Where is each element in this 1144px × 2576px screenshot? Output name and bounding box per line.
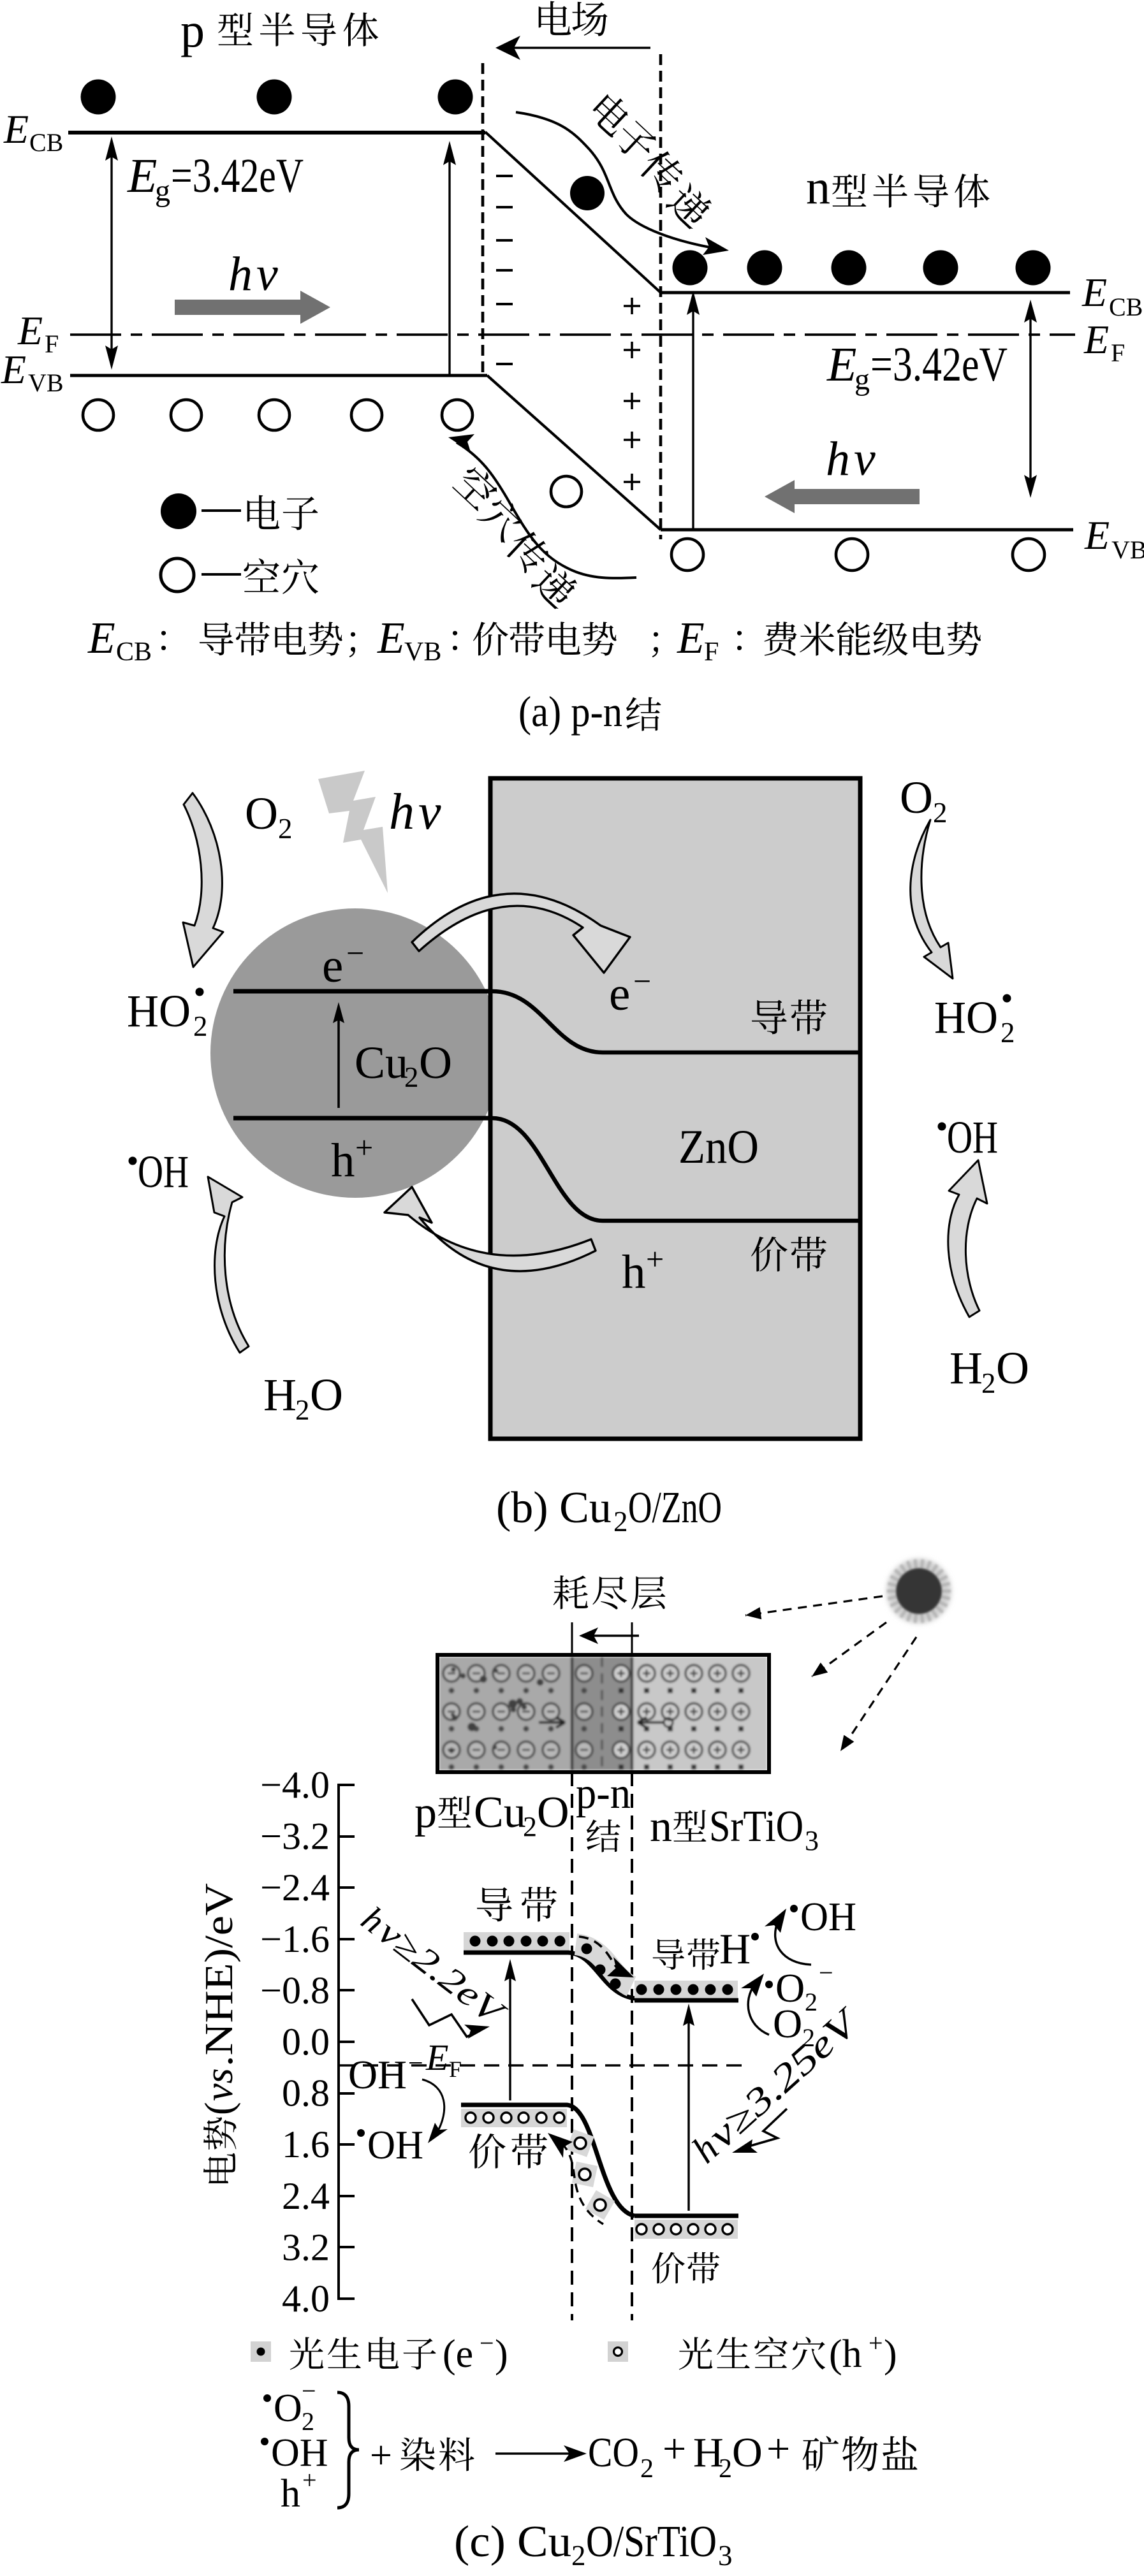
caption (c) Cu2O/SrTiO3 xyxy=(454,2517,733,2572)
SrTiO3 CB electron dots xyxy=(636,1984,733,1995)
svg-text:h: h xyxy=(622,1246,646,1299)
hole circle n1 xyxy=(671,539,703,571)
label E_CB left xyxy=(3,106,63,157)
svg-text:E: E xyxy=(1,347,26,392)
svg-text:2: 2 xyxy=(981,1367,996,1399)
gray photon arrow n-side xyxy=(765,480,920,513)
legend electron dot xyxy=(161,493,196,529)
svg-text:SrTiO: SrTiO xyxy=(709,1802,803,1851)
label hv (b) xyxy=(389,784,441,840)
depletion boundary line above right xyxy=(631,1622,633,1655)
ribbon arrow electron transfer (b) xyxy=(412,894,630,973)
hole circle p5 xyxy=(442,400,473,430)
hole circle p4 xyxy=(351,400,382,430)
svg-text:−2.4: −2.4 xyxy=(260,1867,330,1909)
Cu2O VB hole circles xyxy=(466,2113,564,2123)
junction dashed vertical right (c) xyxy=(631,1772,633,2320)
label Eg=3.42eV n-side xyxy=(826,338,1008,397)
lightning bolt hv xyxy=(318,771,388,893)
svg-text:O: O xyxy=(537,1788,569,1837)
label ZnO xyxy=(678,1121,759,1174)
electron transfer gray band (c) xyxy=(576,1944,631,1986)
E_VB valence band line p-side xyxy=(70,374,487,377)
svg-text:OH: OH xyxy=(800,1894,856,1939)
electric field arrow xyxy=(495,36,650,60)
svg-text:VB: VB xyxy=(28,368,64,397)
svg-text:−: − xyxy=(408,2049,423,2078)
label H2O left xyxy=(263,1369,343,1426)
svg-text:O: O xyxy=(996,1343,1029,1394)
minus charge signs column xyxy=(496,176,513,364)
electron dot n5 xyxy=(1016,251,1051,286)
svg-text:1.6: 1.6 xyxy=(282,2123,330,2165)
svg-text:2: 2 xyxy=(1001,1017,1015,1049)
label p-n junction column xyxy=(576,1769,631,1852)
label 导带 SrTiO3 xyxy=(653,1939,720,1970)
svg-text:e: e xyxy=(322,940,343,993)
svg-text:): ) xyxy=(884,2332,897,2376)
label h+ in sphere xyxy=(331,1130,373,1187)
svg-text:F: F xyxy=(45,330,59,358)
hook arrow H to OH (c) xyxy=(765,1909,811,1965)
electron transfer curve xyxy=(516,112,729,255)
depletion layer arrow xyxy=(579,1627,639,1644)
label O2 (c) xyxy=(773,2001,815,2052)
caption (a) p-n junction xyxy=(518,687,661,736)
label OH- (c) xyxy=(348,2049,423,2097)
svg-text:−3.2: −3.2 xyxy=(260,1816,330,1858)
svg-text:2: 2 xyxy=(523,1811,537,1842)
svg-text:HO: HO xyxy=(127,986,191,1037)
svg-text:2: 2 xyxy=(404,1061,419,1093)
svg-text:ν: ν xyxy=(256,247,278,301)
ribbon arrow H2O right xyxy=(948,1160,987,1317)
svg-text:g: g xyxy=(854,363,870,397)
svg-text:p: p xyxy=(414,1788,437,1837)
junction dashed vertical left (c) xyxy=(571,1772,573,2320)
legend hole circle xyxy=(161,558,194,592)
svg-text:−: − xyxy=(633,963,651,999)
svg-text:2: 2 xyxy=(193,1010,208,1042)
axis value labels xyxy=(260,1764,330,2320)
SrTiO3 VB hole circles xyxy=(636,2224,733,2234)
electron dot n2 xyxy=(747,251,782,286)
svg-text:+: + xyxy=(302,2466,317,2494)
Cu2O CB level line and S-curve xyxy=(464,1953,636,1998)
svg-text:E: E xyxy=(3,106,29,152)
Cu2O h+ level line xyxy=(233,1116,492,1121)
legend photo-hole (c) xyxy=(608,2329,897,2376)
svg-text:2: 2 xyxy=(640,2454,654,2484)
svg-text:0.0: 0.0 xyxy=(282,2021,330,2063)
conduction band slope xyxy=(485,132,661,293)
svg-text:ν≥2.2eV: ν≥2.2eV xyxy=(370,1912,513,2034)
axis title 电势(vs.NHE)/eV xyxy=(198,1883,241,2183)
svg-text:−: − xyxy=(346,935,364,971)
svg-text:−0.8: −0.8 xyxy=(260,1969,330,2011)
label 价带 SrTiO3 xyxy=(652,2252,720,2283)
svg-text:+: + xyxy=(646,1241,664,1277)
hole transfer circles (c) xyxy=(575,2137,606,2211)
svg-text:g: g xyxy=(155,174,170,208)
title p-type semiconductor xyxy=(180,4,378,57)
SrTiO3 VB level line xyxy=(634,2214,738,2218)
caption definitions line xyxy=(87,614,981,667)
svg-text:VB: VB xyxy=(404,637,441,667)
svg-text:ν: ν xyxy=(418,784,441,840)
svg-text:E: E xyxy=(1084,513,1110,558)
hook arrow O2 (c) xyxy=(741,1974,769,2035)
svg-text:2.4: 2.4 xyxy=(282,2175,330,2217)
svg-text:O/ZnO: O/ZnO xyxy=(628,1483,722,1532)
photoexcitation arrow SrTiO3 (c) xyxy=(683,2004,694,2211)
depletion boundary line above left xyxy=(571,1622,573,1655)
label 电子传递 rotated xyxy=(587,90,715,231)
svg-text:(c) Cu: (c) Cu xyxy=(454,2517,571,2566)
svg-text:(e: (e xyxy=(443,2332,473,2376)
svg-text:h: h xyxy=(331,1134,355,1187)
svg-text:3.2: 3.2 xyxy=(282,2226,330,2268)
hole circle n3 xyxy=(1013,539,1045,571)
label 价带 Cu2O xyxy=(469,2134,547,2169)
SrTiO3 VB gray band xyxy=(634,2220,738,2239)
svg-text:OH: OH xyxy=(138,1146,189,1197)
svg-text:(: ( xyxy=(198,2102,241,2115)
svg-text:−4.0: −4.0 xyxy=(260,1764,330,1806)
label .OH (c) left xyxy=(357,2122,423,2167)
gray photon arrow p-side xyxy=(175,291,330,324)
svg-text:2: 2 xyxy=(613,1506,628,1538)
svg-text:.NHE)/eV: .NHE)/eV xyxy=(198,1883,241,2067)
electric field label 电场 xyxy=(539,1,608,36)
crystal lattice schematic xyxy=(439,1657,767,1770)
svg-text:HO: HO xyxy=(934,992,998,1043)
svg-text:2: 2 xyxy=(295,1394,310,1426)
valence band slope xyxy=(487,375,661,530)
hole circle p1 xyxy=(83,400,114,430)
junction dashed line left xyxy=(481,63,485,375)
svg-text:OH: OH xyxy=(271,2431,328,2475)
label HO2 radical left xyxy=(127,986,208,1042)
svg-text:−: − xyxy=(480,2329,494,2357)
svg-text:H: H xyxy=(263,1369,297,1420)
label 导带 Cu2O CB xyxy=(477,1887,557,1922)
Cu2O CB gray band xyxy=(464,1932,569,1951)
svg-text:Cu: Cu xyxy=(355,1037,408,1088)
svg-text:ZnO: ZnO xyxy=(678,1121,759,1174)
sun ray 3 xyxy=(840,1637,916,1751)
svg-text:p: p xyxy=(180,4,205,57)
electron dot p2 xyxy=(257,80,292,115)
svg-text:): ) xyxy=(495,2332,508,2376)
label HO2 radical right xyxy=(934,992,1015,1049)
zigzag arrow 2.2eV xyxy=(412,1999,490,2039)
hole transfer dashed curve (c) xyxy=(548,2133,603,2224)
svg-text:(h: (h xyxy=(829,2332,862,2376)
electron dot n1 xyxy=(673,251,708,286)
Cu2O sphere xyxy=(210,908,500,1198)
svg-text:(b) Cu: (b) Cu xyxy=(496,1483,612,1532)
svg-text:E: E xyxy=(425,2037,448,2078)
svg-text:CB: CB xyxy=(1109,293,1143,321)
legend electron text xyxy=(202,495,318,530)
label 耗尽层 depletion layer xyxy=(554,1575,666,1609)
svg-text:h: h xyxy=(228,247,253,301)
svg-text:2: 2 xyxy=(719,2454,732,2484)
svg-text:3: 3 xyxy=(718,2540,733,2572)
svg-text:E: E xyxy=(677,614,705,663)
electron transfer dots (c) xyxy=(582,1944,621,1990)
svg-text:vs: vs xyxy=(198,2068,241,2101)
reactants .OH xyxy=(261,2431,328,2475)
Fermi level dashed line (c) xyxy=(339,2064,745,2066)
svg-text:−1.6: −1.6 xyxy=(260,1918,330,1960)
photoexcitation arrow n-side xyxy=(687,291,700,530)
svg-text:F: F xyxy=(704,637,719,667)
reaction products xyxy=(588,2426,918,2484)
svg-text:e: e xyxy=(609,968,630,1021)
reactants h+ xyxy=(281,2466,317,2515)
svg-text:0.8: 0.8 xyxy=(282,2072,330,2114)
svg-text:O: O xyxy=(419,1037,452,1088)
reaction arrow xyxy=(495,2445,587,2462)
electron dot p1 xyxy=(81,80,116,115)
Cu2O VB level line and S-curve xyxy=(461,2105,634,2216)
hole circle on slope xyxy=(551,476,582,507)
svg-text:(a) p-n: (a) p-n xyxy=(518,687,622,736)
svg-text:n: n xyxy=(806,161,830,214)
label E_F right xyxy=(1083,317,1125,367)
ribbon arrow O2 to HO2 left xyxy=(183,793,223,967)
svg-text:OH: OH xyxy=(348,2052,407,2097)
svg-text:O: O xyxy=(732,2429,763,2476)
svg-text:n: n xyxy=(650,1802,672,1851)
svg-text:h: h xyxy=(826,432,850,486)
label hv>=3.25eV rotated xyxy=(684,1999,869,2171)
brace xyxy=(337,2392,359,2508)
label hv n-side xyxy=(826,432,876,486)
svg-text:O: O xyxy=(245,788,278,839)
label .O2- (c) xyxy=(765,1958,833,2016)
Cu2O e- level line xyxy=(233,989,492,994)
svg-text:=3.42eV: =3.42eV xyxy=(171,149,304,203)
bandgap double arrow p-side xyxy=(105,136,118,370)
ZnO valence band curve xyxy=(492,1118,858,1221)
reaction + dye xyxy=(370,2434,474,2477)
label CB in ZnO 导带 xyxy=(752,1000,826,1035)
label O2 left (b) xyxy=(245,788,293,845)
sun ray 2 xyxy=(812,1622,886,1677)
svg-text:H: H xyxy=(719,1925,751,1973)
E_CB conduction band line n-side xyxy=(661,291,1070,295)
svg-text:OH: OH xyxy=(367,2122,423,2167)
ZnO conduction band curve xyxy=(492,991,858,1052)
svg-text:4.0: 4.0 xyxy=(282,2278,330,2320)
zigzag arrow 3.25eV xyxy=(732,2109,787,2153)
legend hole text xyxy=(202,558,318,594)
svg-text:2: 2 xyxy=(933,797,948,829)
svg-text:CO: CO xyxy=(588,2429,639,2476)
svg-text:h: h xyxy=(281,2472,300,2515)
svg-text:O: O xyxy=(310,1369,343,1420)
label H radical (c) xyxy=(719,1925,759,1973)
E_CB conduction band line p-side xyxy=(68,131,485,135)
potential axis line with ticks xyxy=(339,1784,355,2300)
label VB in ZnO 价带 xyxy=(751,1237,826,1272)
svg-text:−: − xyxy=(819,1958,833,1987)
label E_F left xyxy=(17,308,59,358)
svg-text:F: F xyxy=(1111,338,1125,367)
photoexcitation arrow p-side xyxy=(443,141,456,375)
svg-text:E: E xyxy=(377,614,405,663)
hole transfer curve xyxy=(448,434,636,578)
svg-text:F: F xyxy=(449,2056,462,2082)
svg-text:E: E xyxy=(127,149,157,203)
Cu2O CB electron dots xyxy=(470,1936,566,1947)
svg-text:−: − xyxy=(302,2376,316,2405)
ribbon arrow O2 right xyxy=(911,820,953,979)
bandgap double arrow n-side xyxy=(1024,300,1037,498)
svg-text:p-n: p-n xyxy=(576,1769,631,1818)
label n-type SrTiO3 xyxy=(650,1802,819,1856)
svg-text:+: + xyxy=(355,1130,373,1165)
ribbon arrow hole transfer (b) xyxy=(385,1187,596,1271)
svg-text:2: 2 xyxy=(278,813,293,845)
up arrow in sphere xyxy=(333,1002,344,1108)
OH-/OH arrow (c) xyxy=(422,2079,448,2143)
svg-text:CB: CB xyxy=(116,637,152,667)
sun ray 1 xyxy=(745,1596,883,1619)
label O2 right (b) xyxy=(900,772,948,829)
label E_CB right xyxy=(1082,270,1143,321)
title n-type semiconductor xyxy=(806,161,990,214)
svg-text:+: + xyxy=(370,2434,402,2477)
legend photo-electron (c) xyxy=(251,2329,508,2376)
svg-text:+: + xyxy=(766,2426,790,2472)
svg-text:O: O xyxy=(900,772,933,823)
svg-text:E: E xyxy=(1083,317,1109,362)
svg-text:2: 2 xyxy=(805,1988,818,2016)
svg-text:H: H xyxy=(950,1343,983,1394)
label hv>=2.2eV rotated xyxy=(354,1899,513,2034)
E_VB valence band line n-side xyxy=(661,528,1073,532)
label Eg=3.42eV p-side xyxy=(127,149,304,208)
photoexcitation arrow Cu2O (c) xyxy=(504,1959,516,2100)
electron dot n3 xyxy=(832,251,867,286)
svg-text:=3.42eV: =3.42eV xyxy=(870,338,1008,391)
svg-text:E: E xyxy=(87,614,115,663)
junction dashed line right xyxy=(659,54,663,539)
reactants .O2- xyxy=(263,2376,316,2436)
hole transfer gray band (c) xyxy=(566,2129,615,2220)
svg-text:E: E xyxy=(1082,270,1107,315)
Fermi level dash-dot line xyxy=(70,333,1075,336)
electron dot on slope xyxy=(570,176,605,210)
label 空穴传递 rotated xyxy=(451,462,580,611)
svg-text:ν: ν xyxy=(854,432,876,486)
electron transfer dashed curve (c) xyxy=(579,1937,634,1977)
hole circle p3 xyxy=(259,400,290,430)
svg-text:+: + xyxy=(663,2426,686,2472)
label E_VB left xyxy=(1,347,64,397)
SrTiO3 CB level line xyxy=(634,1998,738,2003)
svg-text:3: 3 xyxy=(805,1825,819,1856)
plus charge signs column xyxy=(624,298,640,490)
hole circle n2 xyxy=(836,539,868,571)
label h+ in ZnO xyxy=(622,1241,664,1299)
label Cu2O in sphere xyxy=(355,1037,452,1093)
ZnO rectangle xyxy=(490,778,860,1439)
Cu2O VB gray band xyxy=(461,2109,567,2127)
label hv p-side xyxy=(228,247,278,301)
svg-text:2: 2 xyxy=(571,2540,586,2572)
label E_F (c) xyxy=(425,2037,462,2082)
svg-text:+: + xyxy=(869,2329,883,2357)
caption (b) Cu2O/ZnO xyxy=(496,1483,722,1538)
svg-text:O: O xyxy=(274,2387,302,2430)
label e- in ZnO xyxy=(609,963,651,1021)
label OH radical right xyxy=(938,1112,999,1163)
svg-text:VB: VB xyxy=(1111,535,1144,564)
label .OH right (c) xyxy=(790,1894,856,1939)
SrTiO3 CB gray band xyxy=(634,1981,738,1998)
electron dot p3 xyxy=(438,80,473,115)
label OH radical left xyxy=(129,1146,189,1197)
label p-type Cu2O xyxy=(414,1788,569,1842)
electron dot n4 xyxy=(923,251,958,286)
label H2O right xyxy=(950,1343,1029,1399)
label E_VB right xyxy=(1084,513,1144,564)
svg-text:h: h xyxy=(389,784,414,840)
label e- in sphere xyxy=(322,935,364,993)
svg-text:OH: OH xyxy=(947,1112,998,1163)
svg-text:Cu: Cu xyxy=(474,1788,526,1837)
ribbon arrow H2O to OH left xyxy=(208,1177,249,1353)
svg-text:E: E xyxy=(826,338,856,391)
sun xyxy=(886,1559,951,1624)
hole circle p2 xyxy=(171,400,202,430)
svg-text:CB: CB xyxy=(29,128,63,157)
svg-text:O/SrTiO: O/SrTiO xyxy=(586,2517,717,2566)
